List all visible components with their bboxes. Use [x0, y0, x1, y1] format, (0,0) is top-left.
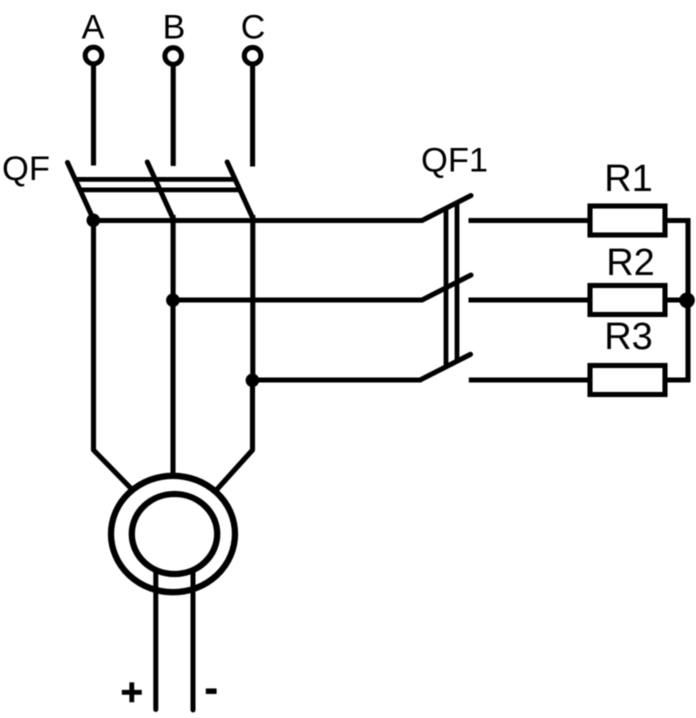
terminal B circle	[165, 48, 182, 65]
breaker QF1 pole 1 lever	[422, 196, 471, 221]
breaker QF1 linkage bar right line	[455, 203, 460, 362]
node B junction dot	[166, 293, 180, 307]
node C junction dot	[246, 374, 260, 388]
plus label	[122, 682, 142, 702]
breaker QF pole 2 lever	[147, 162, 173, 219]
wire phase C from terminal	[250, 66, 255, 166]
wire phase A down to motor	[94, 220, 134, 491]
svg-text:R3: R3	[604, 316, 653, 358]
terminal C circle	[244, 47, 261, 64]
svg-text:A: A	[82, 9, 105, 47]
terminal A circle	[85, 47, 102, 64]
wire phase A to QF1	[93, 218, 422, 223]
wire phase B from terminal	[171, 67, 176, 167]
motor M inner circle	[132, 494, 217, 574]
svg-text:C: C	[241, 9, 266, 47]
resistor R2	[590, 286, 665, 315]
minus label	[206, 688, 217, 694]
svg-text:R1: R1	[604, 158, 653, 200]
wire phase B lever to node B	[171, 215, 176, 300]
wire R2 to bus	[667, 297, 690, 302]
wire QF1 to R1	[469, 218, 589, 223]
resistor R3	[590, 366, 665, 395]
right bus wire	[685, 218, 690, 382]
wire QF1 to R2	[469, 297, 589, 302]
wire R1 to bus	[667, 218, 690, 223]
wire negative brush lead	[191, 571, 196, 710]
breaker QF pole 3 lever	[227, 162, 253, 219]
wire R3 to bus	[667, 377, 690, 382]
breaker QF1 linkage bar left line	[444, 208, 449, 367]
wire phase C lever to node C	[250, 215, 255, 380]
breaker QF pole 1 lever	[68, 163, 94, 220]
node right bus junction dot	[679, 293, 695, 309]
wire phase C to QF1	[252, 377, 421, 382]
svg-text:QF1: QF1	[421, 142, 488, 180]
breaker QF linkage bar lower line	[80, 187, 240, 192]
wire phase B to QF1	[173, 297, 422, 302]
node A junction dot	[87, 214, 101, 228]
svg-text:R2: R2	[606, 242, 655, 284]
resistor R1	[590, 206, 665, 235]
wire phase B down to motor	[170, 300, 175, 474]
wire positive brush lead	[153, 571, 158, 710]
wire phase C down to motor	[216, 380, 253, 491]
svg-text:QF: QF	[2, 150, 50, 188]
wire QF1 to R3	[469, 377, 588, 382]
breaker QF1 pole 2 lever	[422, 275, 471, 300]
breaker QF1 pole 3 lever	[421, 354, 471, 379]
svg-text:B: B	[163, 9, 186, 47]
wire phase A from terminal	[91, 66, 96, 166]
breaker QF linkage bar upper line	[75, 177, 235, 182]
motor M outer circle	[111, 476, 235, 592]
